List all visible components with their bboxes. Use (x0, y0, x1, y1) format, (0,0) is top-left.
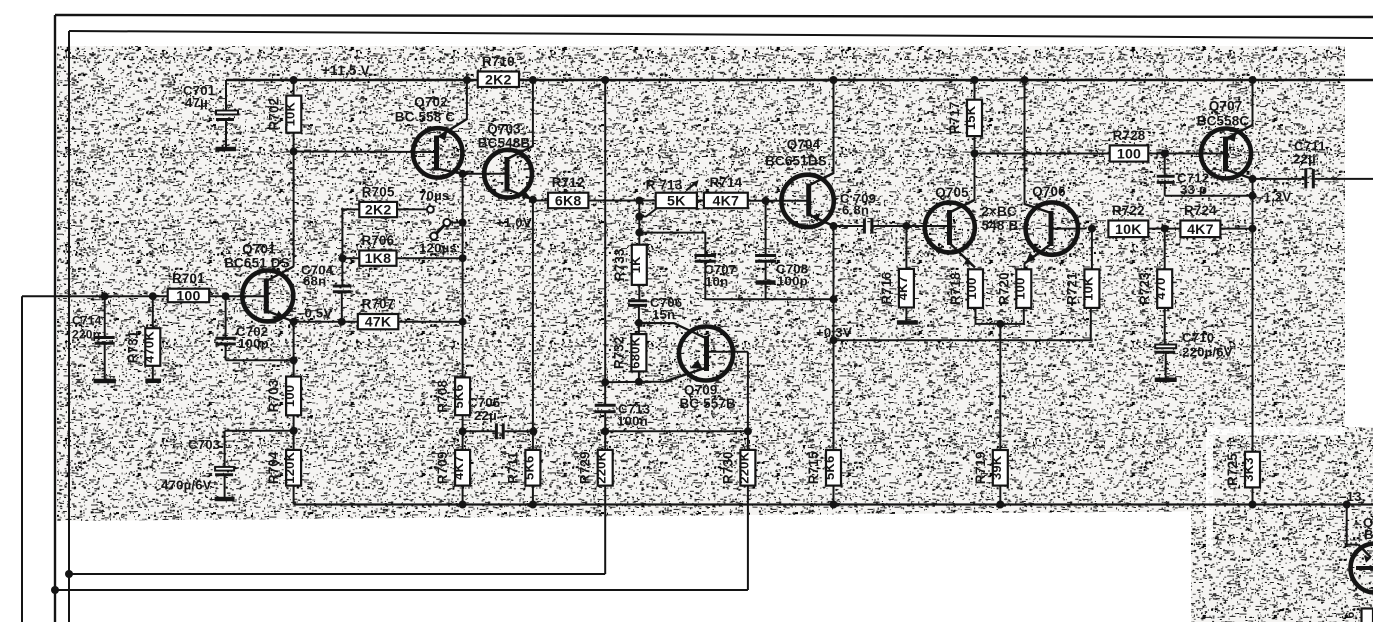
label 120µs (419, 241, 457, 256)
capacitor C705 (463, 395, 534, 439)
wire C707 top branch (639, 233, 705, 254)
node rail Q706 collector (1021, 76, 1029, 84)
node bottom rail R709 (459, 501, 467, 509)
white notch vertical in inset (1206, 433, 1213, 553)
node Q704 emitter / C709 (830, 222, 838, 230)
svg-text:2×BC: 2×BC (981, 204, 1017, 219)
svg-text:4K7: 4K7 (713, 193, 740, 209)
svg-text:R718: R718 (948, 272, 963, 305)
pot R713 wiper arrow (686, 181, 699, 191)
node R713 left column (635, 197, 643, 205)
wire -0.5V (294, 321, 358, 323)
wire C713 bottom (604, 412, 606, 450)
wire Q706 emitter to R720 (1024, 263, 1026, 269)
svg-text:Q704: Q704 (787, 137, 821, 152)
white notch horizontal in inset (1207, 427, 1345, 435)
resistor R712 (548, 175, 588, 209)
svg-text:3K3: 3K3 (1241, 457, 1256, 481)
wire R706 left stub (342, 257, 359, 259)
wire C711 left (1253, 178, 1305, 180)
resistor R713 (646, 178, 697, 210)
resistor R708 (435, 377, 470, 415)
resistor R722 (1108, 203, 1148, 238)
wire R725 bottom stem (1252, 487, 1254, 504)
svg-text:BC: BC (1364, 527, 1373, 542)
node R703 bottom / C703 (290, 427, 298, 435)
svg-text:22µ: 22µ (1293, 152, 1316, 167)
resistor R724 (1180, 203, 1220, 238)
svg-text:C710: C710 (1182, 330, 1214, 345)
transistor Q708 (1351, 515, 1373, 593)
transistor Q701 (224, 242, 293, 322)
node rail Q702 emitter (463, 76, 471, 84)
wire R712 to R713 (588, 200, 655, 202)
svg-text:220µ/6V: 220µ/6V (1182, 345, 1233, 360)
switch contact 70us (427, 206, 434, 213)
wire emitter column (293, 322, 295, 377)
node bottom rail -13V branch (1343, 501, 1351, 509)
svg-text:R707: R707 (362, 297, 395, 312)
wire C712 bottom (1165, 195, 1253, 197)
svg-text:6.8n: 6.8n (842, 203, 869, 218)
resistor R729 (578, 450, 613, 486)
wire C713 to R730 (605, 430, 748, 432)
wire Q703 emitter column (532, 200, 534, 450)
wire R713 wiper tie (639, 208, 657, 216)
svg-text:R704: R704 (266, 451, 281, 484)
svg-text:22µ: 22µ (474, 408, 497, 423)
svg-text:100p: 100p (238, 336, 269, 351)
label +1,0V (496, 215, 532, 230)
node C706 bottom / Q709 base (635, 319, 643, 327)
wire R728 left (975, 153, 1110, 155)
resistor bottom-right partial (1343, 609, 1373, 622)
wire R708 junction column (462, 322, 464, 378)
svg-text:1K: 1K (628, 256, 643, 273)
wire C709 left (834, 225, 863, 227)
capacitor C706 (628, 295, 682, 323)
wire Q702 base (294, 151, 437, 154)
svg-text:6: 6 (1343, 611, 1357, 618)
wire R731 stem (152, 296, 154, 328)
svg-text:120K: 120K (282, 451, 297, 483)
svg-text:220K: 220K (594, 451, 609, 483)
svg-text:R708: R708 (435, 380, 450, 413)
node C712 top (1161, 150, 1169, 158)
resistor R733 (612, 245, 647, 285)
svg-text:R725: R725 (1225, 453, 1240, 486)
transistor Q704 (765, 137, 834, 227)
node rail R702 (290, 76, 298, 84)
svg-text:R724: R724 (1184, 203, 1217, 218)
node bottom wire 1 left (65, 570, 73, 578)
node R706 left (338, 254, 346, 262)
label -13V (1339, 489, 1365, 504)
node rail Q703 collector (529, 76, 537, 84)
wire Q703 emitter to R712 (533, 200, 548, 202)
wire +0.3V (834, 308, 1091, 340)
node rail Q707 emitter (1249, 76, 1257, 84)
svg-text:Q702: Q702 (414, 95, 448, 110)
node wiper junction (635, 213, 643, 221)
svg-text:R731: R731 (125, 330, 140, 363)
svg-text:100n: 100n (617, 414, 648, 429)
wire Q702 emitter to rail (466, 80, 468, 120)
halftone block main (57, 46, 1345, 521)
wire R721 column (1091, 229, 1093, 270)
svg-text:100: 100 (282, 385, 297, 407)
svg-text:68n: 68n (303, 274, 326, 289)
node C705 right (529, 427, 537, 435)
svg-text:220K: 220K (736, 451, 751, 483)
svg-text:10K: 10K (1115, 222, 1142, 238)
wire R708 to R709 (462, 415, 464, 450)
wire C708 stem (765, 201, 767, 254)
svg-text:10n: 10n (705, 274, 728, 289)
svg-text:Q701: Q701 (242, 242, 276, 257)
svg-text:R705: R705 (362, 184, 395, 199)
resistor R703 (266, 377, 301, 416)
wire Q707 emitter to rail (1252, 80, 1254, 126)
svg-text:470µ/6V: 470µ/6V (161, 478, 212, 493)
node C707 wire / Q704 emitter column (830, 295, 838, 303)
label 70µs (419, 188, 449, 203)
resistor R731 (125, 328, 160, 366)
resistor R718 (948, 269, 983, 308)
svg-text:4K7: 4K7 (895, 276, 910, 300)
wire R703 to R704 (293, 415, 295, 450)
wire input vertical (21, 296, 23, 622)
svg-text:15K: 15K (963, 105, 978, 130)
wire R723 stem (1164, 229, 1166, 270)
outer frame left line (54, 15, 56, 622)
svg-text:–13,: –13, (1339, 489, 1365, 504)
svg-text:680K: 680K (627, 336, 642, 368)
node bottom rail R719 (996, 501, 1004, 509)
node C704 bottom (338, 318, 346, 326)
wire Q702 collector to Q703 base (463, 173, 507, 175)
svg-text:Q703: Q703 (487, 122, 521, 137)
resistor R707 (358, 297, 399, 331)
svg-text:220p: 220p (72, 328, 100, 342)
svg-text:R701: R701 (172, 271, 205, 286)
label +11,5V (322, 63, 370, 78)
node C705 left (459, 427, 467, 435)
wire R705 to contact (397, 208, 427, 210)
wire R702 bottom stem (293, 133, 295, 152)
svg-text:2K2: 2K2 (485, 72, 512, 88)
capacitor C704 (301, 263, 351, 322)
wire R724 right (1220, 228, 1252, 230)
resistor R709 (435, 450, 470, 486)
node R719 top (996, 320, 1004, 328)
label -1,2V (1256, 190, 1291, 205)
wire C703 branch (225, 430, 294, 432)
node +0.3V column (830, 336, 838, 344)
switch arm (430, 219, 462, 240)
wire R707 right (398, 321, 462, 323)
resistor R730 (720, 450, 755, 486)
node switch arm junction (459, 219, 467, 227)
svg-text:R712: R712 (552, 175, 585, 190)
svg-text:6K8: 6K8 (555, 193, 582, 209)
resistor R710 (478, 54, 519, 88)
node C707 branch (635, 229, 643, 237)
capacitor C709 (840, 191, 876, 234)
wire R733 to C706 (638, 285, 640, 300)
resistor R701 (168, 271, 210, 304)
svg-text:R722: R722 (1112, 203, 1145, 218)
node R702/Q701 collector/Q702 base (290, 148, 298, 156)
node rail Q704 collector (830, 76, 838, 84)
node rail R717 (971, 76, 979, 84)
svg-text:10K: 10K (1080, 276, 1095, 301)
capacitor C714 (72, 296, 116, 381)
wire Q706 collector to rail (1024, 80, 1026, 205)
wire input horizontal (22, 295, 168, 297)
wire R705 left + column (342, 209, 359, 285)
resistor R711 (505, 450, 540, 486)
node bottom rail R711 (529, 501, 537, 509)
capacitor C703 (161, 431, 235, 499)
node emitter column C702 (290, 356, 298, 364)
wire +11.5V rail (226, 79, 1373, 81)
capacitor C701 (183, 83, 238, 149)
svg-text:+1,0V: +1,0V (496, 215, 532, 230)
wire R731 ground (145, 366, 161, 381)
svg-text:R706: R706 (361, 233, 394, 248)
wire Q704 collector to rail (833, 80, 835, 174)
svg-text:10K: 10K (282, 102, 297, 127)
node Q709 emitter wire left (601, 378, 609, 386)
wire Q705 collector riser (974, 136, 976, 200)
outer frame top line (55, 15, 1373, 17)
svg-text:R728: R728 (1113, 128, 1146, 143)
svg-text:70µs: 70µs (419, 188, 449, 203)
label 2xBC 548B (981, 204, 1018, 233)
svg-text:–0,5V: –0,5V (297, 306, 332, 321)
svg-text:Q706: Q706 (1032, 184, 1066, 199)
capacitor C707 (695, 256, 737, 290)
resistor R719 (973, 450, 1008, 486)
svg-text:R732: R732 (611, 336, 626, 369)
wire Q701 collector riser (293, 152, 295, 267)
wire C713 column upper (604, 80, 606, 405)
wire Q707 collector column (1252, 179, 1254, 452)
svg-text:100: 100 (1117, 147, 1141, 163)
wire R713 to R714 (697, 200, 704, 202)
capacitor C711 (1293, 139, 1326, 189)
node Q701 emitter (290, 318, 298, 326)
svg-text:4K7: 4K7 (451, 456, 466, 480)
svg-text:100p: 100p (777, 274, 808, 289)
svg-text:R729: R729 (578, 451, 593, 484)
wire C707 bottom corner (705, 261, 833, 299)
svg-text:470: 470 (1153, 277, 1168, 299)
wire Q708 base branch (1347, 505, 1359, 545)
svg-text:15n: 15n (652, 307, 675, 322)
wire R723 to C710 (1164, 308, 1166, 344)
resistor R721 (1064, 269, 1099, 308)
svg-text:R715: R715 (806, 451, 821, 484)
capacitor C708 (755, 256, 808, 300)
transistor Q706 (1025, 184, 1086, 264)
node Q703 emitter (529, 196, 537, 204)
node bottom wire 2 left (51, 586, 59, 594)
wire R714 to Q704 base (748, 200, 809, 202)
wire R729 bottom long (604, 486, 606, 574)
wire R733 column top (638, 201, 640, 245)
wire R719 column (999, 324, 1001, 450)
svg-text:470K: 470K (141, 331, 156, 363)
wire bottom 1 (69, 573, 605, 575)
wire C711 right out (1315, 178, 1373, 180)
svg-text:BC651DS: BC651DS (765, 154, 827, 169)
svg-text:Q707: Q707 (1209, 99, 1243, 114)
capacitor C712 (1157, 154, 1210, 198)
svg-text:R723: R723 (1137, 272, 1152, 305)
resistor R702 (266, 96, 301, 133)
transistor Q702 (395, 95, 467, 178)
wire Q702 collector column (462, 174, 464, 322)
svg-text:R730: R730 (720, 451, 735, 484)
svg-text:BC558C: BC558C (1197, 114, 1250, 129)
wire C701 stem (225, 80, 227, 110)
wire R704 bottom corner (293, 486, 295, 505)
wire R702 top stem (293, 80, 295, 96)
wire R701 to Q701 base (209, 295, 266, 297)
inner frame left line (68, 31, 70, 622)
resistor R714 (704, 175, 748, 209)
node bottom rail R715 (830, 501, 838, 509)
svg-text:R709: R709 (435, 451, 450, 484)
node R723 top (1161, 225, 1169, 233)
svg-text:R716: R716 (879, 272, 894, 305)
capacitor C702 (215, 296, 268, 360)
transistor Q707 (1197, 99, 1253, 179)
wire R706 right (397, 257, 463, 259)
resistor R723 (1137, 269, 1172, 308)
svg-text:39K: 39K (989, 455, 1004, 480)
svg-text:BC 557B: BC 557B (679, 396, 736, 411)
wire R719 bottom stem (999, 486, 1001, 505)
node R731 top (149, 292, 157, 300)
halftone block inset bottom-right (1191, 427, 1373, 622)
svg-text:5K: 5K (667, 193, 686, 209)
label +0,3V (816, 325, 852, 340)
node -1.2V (1249, 192, 1257, 200)
node bottom rail R725 (1249, 501, 1257, 509)
svg-text:C703: C703 (188, 437, 220, 452)
resistor R717 (947, 100, 982, 136)
resistor R728 (1110, 128, 1149, 163)
resistor R715 (806, 450, 841, 486)
node C714 top (101, 292, 109, 300)
resistor R725 (1225, 452, 1260, 488)
wire R718 bottom (976, 308, 1024, 324)
svg-text:R720: R720 (996, 272, 1011, 305)
wire R730 bottom long (747, 486, 749, 590)
svg-text:R717: R717 (947, 101, 962, 134)
inner frame top line (69, 31, 1373, 38)
svg-text:5K6: 5K6 (451, 384, 466, 408)
svg-text:R721: R721 (1064, 272, 1079, 305)
svg-text:47K: 47K (365, 315, 392, 331)
svg-text:5K6: 5K6 (521, 456, 536, 480)
transistor Q709 (639, 323, 748, 411)
wire Q703 collector to rail (532, 80, 534, 147)
node R721 top (1088, 225, 1096, 233)
svg-text:33 p: 33 p (1180, 182, 1207, 197)
svg-text:2K2: 2K2 (365, 203, 392, 219)
node R714 right (762, 197, 770, 205)
svg-text:R710: R710 (482, 54, 515, 69)
wire Q709 right column (747, 352, 749, 450)
svg-text:BC 558 C: BC 558 C (395, 110, 456, 125)
svg-text:R711: R711 (505, 451, 520, 483)
capacitor C713 (595, 402, 651, 429)
svg-text:1K8: 1K8 (365, 251, 392, 267)
wire R711 bottom stem (532, 486, 534, 505)
wire bottom 2 (55, 589, 748, 591)
svg-text:–1,2V: –1,2V (1256, 190, 1291, 205)
svg-text:BC548B: BC548B (478, 136, 531, 151)
node R730 top (744, 427, 752, 435)
wire R709 bottom stem (462, 486, 464, 505)
wire R715 bottom stem (833, 486, 835, 505)
svg-text:47µ: 47µ (185, 95, 208, 110)
resistor R706 (359, 233, 396, 267)
node Q702 collector (459, 170, 467, 178)
wire R732 stems (638, 323, 640, 382)
svg-text:R714: R714 (709, 175, 742, 190)
wire C702 to emitter column (226, 359, 294, 361)
wire R716 stem (905, 226, 907, 269)
svg-text:100: 100 (1012, 277, 1027, 299)
resistor R705 (359, 184, 397, 218)
resistor R732 (611, 334, 646, 371)
svg-text:R703: R703 (266, 379, 281, 412)
svg-text:R733: R733 (612, 248, 627, 281)
svg-text:R719: R719 (973, 451, 988, 484)
wire Q709 emitter run (605, 381, 664, 384)
node Q707 collector (1249, 175, 1257, 183)
node C713 bottom wire (601, 427, 609, 435)
svg-text:+0,3V: +0,3V (816, 325, 852, 340)
svg-text:548 B: 548 B (982, 218, 1019, 233)
svg-text:120µs: 120µs (419, 241, 457, 256)
node rail C713 column (601, 76, 609, 84)
svg-text:BC651 DS: BC651 DS (224, 256, 290, 271)
node R716 top (902, 222, 910, 230)
svg-text:R 713: R 713 (646, 178, 683, 193)
resistor R720 (996, 269, 1031, 308)
wire R717 stem top (974, 80, 976, 100)
ground R716 (897, 308, 918, 323)
node R728 junction (971, 150, 979, 158)
node R732 bottom (635, 378, 643, 386)
resistor R716 (879, 269, 914, 308)
svg-text:C714: C714 (72, 314, 102, 328)
wire C709 right (873, 225, 949, 227)
node R706 right (459, 254, 467, 262)
svg-text:4K7: 4K7 (1187, 222, 1214, 238)
label -0,5V (297, 306, 332, 321)
node C702 top (222, 292, 230, 300)
capacitor C710 (1155, 330, 1233, 380)
transistor Q705 (925, 185, 975, 268)
svg-text:+11,5 V: +11,5 V (322, 63, 370, 78)
